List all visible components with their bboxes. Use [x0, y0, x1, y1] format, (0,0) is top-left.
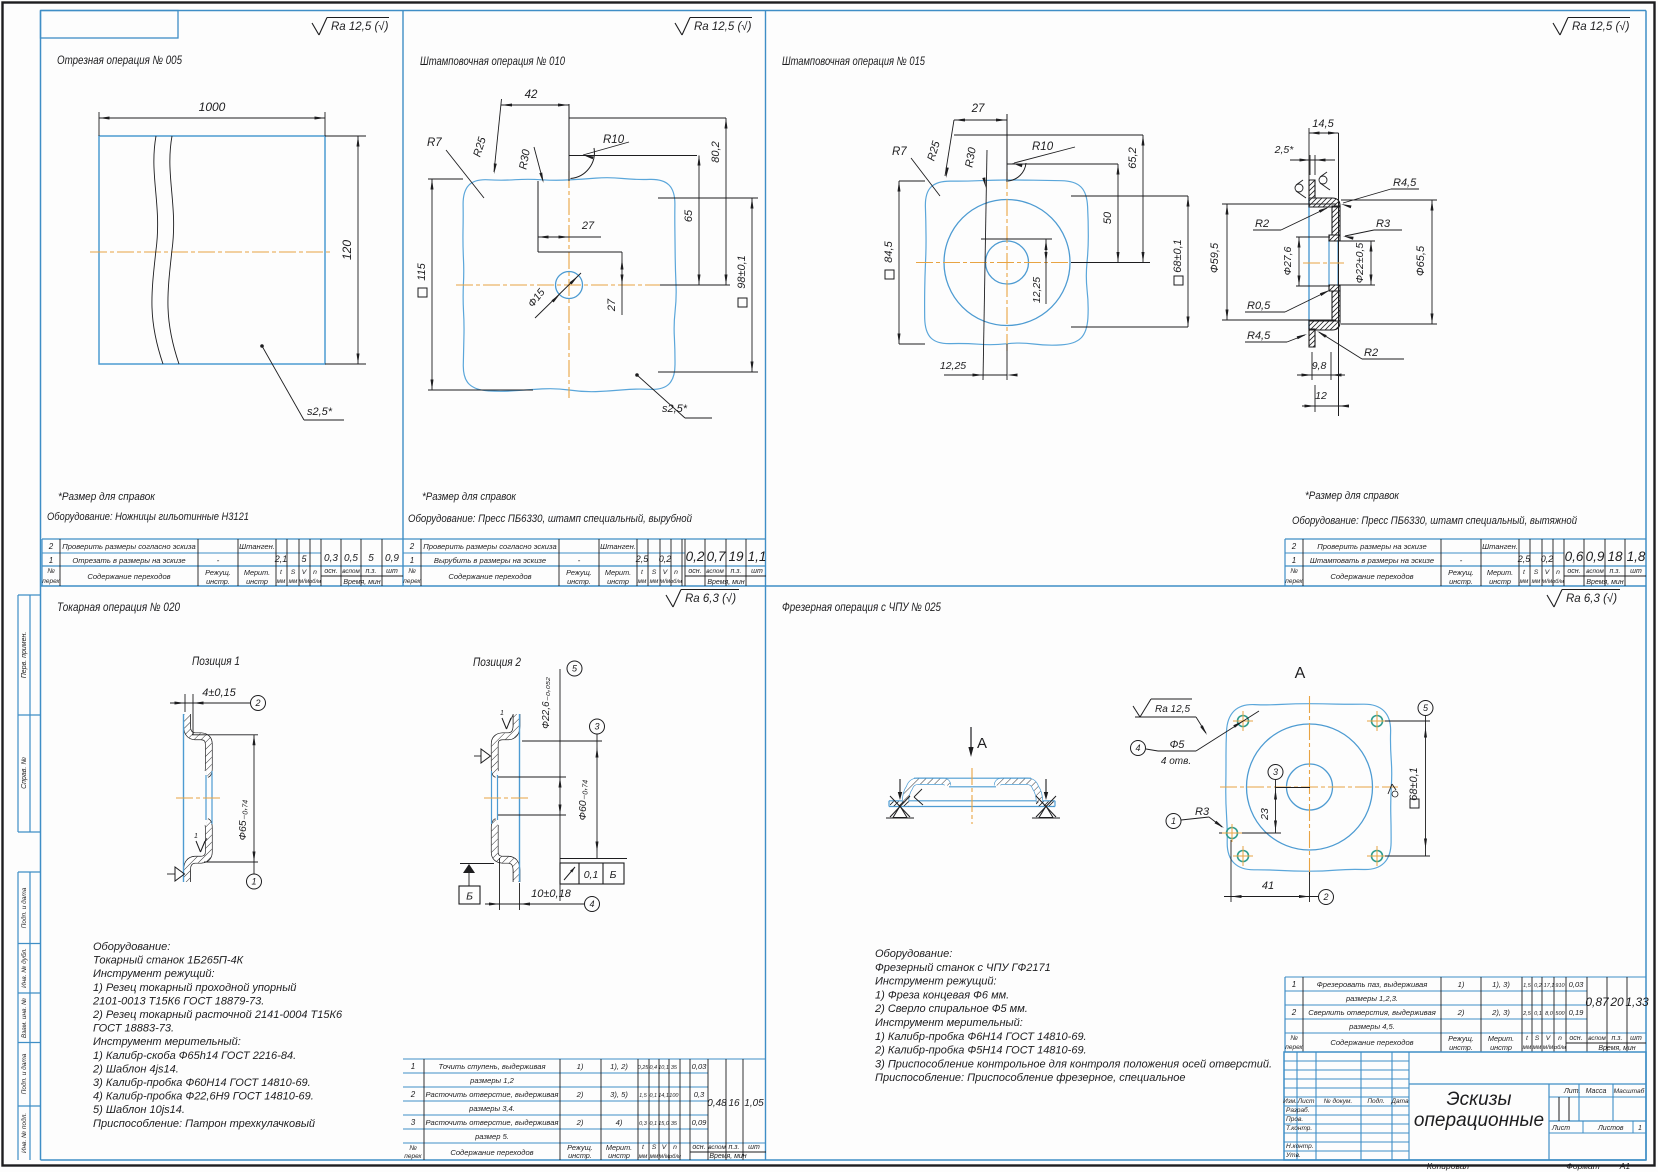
svg-text:перех: перех — [404, 1153, 422, 1160]
svg-text:68±0,1: 68±0,1 — [1172, 239, 1184, 273]
op010 dim 27 horizontal — [538, 236, 601, 238]
panel 1 operations table — [42, 538, 403, 540]
side view cup left wall band — [906, 781, 948, 802]
svg-text:Ф60₋₀,₇₄: Ф60₋₀,₇₄ — [577, 780, 589, 821]
pos2 bottom face line to tolerance frame — [560, 858, 627, 860]
svg-text:Ra 12,5 (√): Ra 12,5 (√) — [694, 20, 752, 33]
svg-text:№ докум.: № докум. — [1324, 1097, 1353, 1105]
svg-text:0,5: 0,5 — [344, 553, 358, 564]
svg-text:мм: мм — [1533, 1044, 1542, 1051]
svg-text:Лит.: Лит. — [1563, 1088, 1580, 1095]
svg-text:Масса: Масса — [1586, 1088, 1607, 1095]
op015 dim 27 — [954, 119, 1007, 121]
top view R3 leader and balloon 1 — [1166, 814, 1181, 829]
svg-text:Оборудование: Пресс ПБ6330, шт: Оборудование: Пресс ПБ6330, штамп специа… — [1292, 515, 1577, 527]
svg-text:п.з.: п.з. — [729, 1144, 740, 1151]
op010 dim 42 — [501, 104, 569, 106]
svg-text:осн.: осн. — [692, 1144, 705, 1151]
panel 5 operations table — [1285, 976, 1646, 978]
svg-text:12,25: 12,25 — [940, 360, 966, 372]
svg-text:Оборудование:: Оборудование: — [875, 948, 952, 960]
svg-text:Содержание переходов: Содержание переходов — [1330, 1038, 1413, 1047]
svg-text:R0,5: R0,5 — [1247, 300, 1271, 312]
svg-text:инстр: инстр — [608, 1151, 630, 1160]
top view dim 41 and balloon 2 — [1230, 840, 1232, 902]
op015 dim Ф22±0,5 — [1331, 240, 1375, 242]
svg-text:2: 2 — [1291, 1008, 1297, 1017]
op010 R25 leader — [494, 99, 502, 172]
svg-text:1: 1 — [1292, 980, 1296, 989]
svg-text:4): 4) — [616, 1118, 623, 1127]
svg-text:Время, мин: Время, мин — [709, 1153, 746, 1160]
svg-text:1: 1 — [1292, 556, 1296, 565]
svg-text:Ф22,6₋₀,₀₅₂: Ф22,6₋₀,₀₅₂ — [541, 677, 552, 729]
svg-text:№: № — [1290, 568, 1298, 575]
top view edge finish mark — [1388, 784, 1392, 794]
svg-text:Копировал: Копировал — [1427, 1161, 1469, 1171]
svg-text:R3: R3 — [1376, 218, 1391, 230]
panel 1 Ra mark — [312, 23, 319, 35]
svg-text:об/м: об/м — [669, 1154, 681, 1160]
svg-text:Формат: Формат — [1566, 1161, 1600, 1171]
svg-text:инстр: инстр — [1489, 577, 1511, 586]
svg-text:0,2: 0,2 — [686, 549, 705, 564]
svg-text:Токарный станок 1Б265П-4К: Токарный станок 1Б265П-4К — [93, 955, 244, 967]
op015 dim 9,8 — [1311, 352, 1313, 380]
svg-text:1: 1 — [1171, 816, 1176, 826]
svg-text:Инв. № подл.: Инв. № подл. — [20, 1113, 28, 1154]
svg-text:мм: мм — [639, 1153, 648, 1160]
svg-text:4 отв.: 4 отв. — [1161, 756, 1191, 767]
title block frame — [1284, 1052, 1646, 1160]
svg-text:65: 65 — [683, 209, 695, 222]
svg-text:1: 1 — [251, 877, 256, 887]
svg-text:0,1: 0,1 — [649, 1121, 657, 1127]
svg-text:0,25: 0,25 — [638, 1065, 650, 1071]
op010 centerline vertical — [568, 171, 570, 398]
svg-text:1: 1 — [410, 556, 414, 565]
op015 dim 50 — [1117, 164, 1119, 263]
svg-text:размеры 1,2,3.: размеры 1,2,3. — [1345, 994, 1398, 1003]
svg-text:S: S — [652, 1144, 657, 1151]
pos1 dim 4±0,15 — [184, 694, 186, 712]
svg-text:1,5: 1,5 — [639, 1093, 648, 1099]
top view dim 23 and balloon 3 — [1268, 765, 1283, 780]
svg-text:инстр.: инстр. — [567, 577, 591, 586]
pos2 balloon 3 and dim Ф60 — [590, 719, 605, 734]
svg-text:12: 12 — [1315, 390, 1327, 402]
svg-text:№: № — [1290, 1035, 1298, 1042]
svg-text:Инв. № дубл.: Инв. № дубл. — [20, 948, 28, 988]
svg-text:Мерит.: Мерит. — [1488, 1034, 1514, 1043]
top view blank wavy square — [1226, 704, 1392, 872]
svg-text:1) Резец токарный проходной уп: 1) Резец токарный проходной упорный — [93, 982, 296, 994]
op015 finish symbol left — [1295, 184, 1303, 192]
svg-text:3: 3 — [411, 1118, 416, 1127]
svg-text:98±0,1: 98±0,1 — [736, 255, 748, 289]
side view flange sheet lines — [889, 800, 1055, 802]
svg-text:Отрезать в размеры на эскизе: Отрезать в размеры на эскизе — [72, 556, 185, 565]
svg-text:1: 1 — [49, 556, 53, 565]
svg-text:4) Калибр-пробка Ф22,6Н9 ГОСТ: 4) Калибр-пробка Ф22,6Н9 ГОСТ 14810-69. — [93, 1091, 314, 1103]
op015 part/extension lines — [1006, 114, 1008, 182]
svg-text:Фрезерная операция с ЧПУ № 025: Фрезерная операция с ЧПУ № 025 — [782, 600, 941, 614]
op015 section: flange plane line — [1338, 133, 1340, 416]
svg-text:3: 3 — [594, 722, 599, 732]
svg-text:0,9: 0,9 — [1586, 549, 1605, 564]
svg-text:2: 2 — [1291, 542, 1297, 551]
op005 sheet rectangle — [99, 136, 325, 364]
svg-text:п.з.: п.з. — [1610, 568, 1621, 575]
svg-text:Расточить отверстие, выдержива: Расточить отверстие, выдерживая — [425, 1118, 558, 1127]
svg-text:вспом: вспом — [342, 568, 360, 575]
svg-text:м/м: м/м — [1543, 1044, 1554, 1051]
pos2 tolerance frame 0,1 Б — [560, 863, 624, 884]
svg-text:мм: мм — [650, 578, 659, 585]
op010 centerline horizontal — [456, 284, 682, 286]
svg-text:инстр: инстр — [246, 577, 268, 586]
svg-text:5: 5 — [368, 553, 374, 564]
svg-text:мм: мм — [1532, 578, 1541, 585]
svg-text:п.з.: п.з. — [366, 568, 377, 575]
svg-text:мм: мм — [289, 578, 298, 585]
svg-text:инстр.: инстр. — [1449, 1043, 1473, 1052]
top view R3 milled corner — [1227, 828, 1238, 839]
svg-text:Ф59,5: Ф59,5 — [1209, 242, 1221, 273]
svg-text:1,1: 1,1 — [748, 549, 767, 564]
svg-text:3) Калибр-пробка Ф60Н14 ГОСТ 1: 3) Калибр-пробка Ф60Н14 ГОСТ 14810-69. — [93, 1077, 311, 1089]
svg-text:2: 2 — [48, 542, 54, 551]
svg-text:2: 2 — [410, 1090, 416, 1099]
svg-text:шт: шт — [386, 568, 398, 575]
panel 2 Ra mark — [675, 23, 682, 35]
svg-text:2,5: 2,5 — [635, 554, 650, 564]
svg-text:об/м: об/м — [1552, 579, 1564, 585]
svg-text:Н.контр.: Н.контр. — [1286, 1143, 1314, 1150]
pos2 cup section upper band — [495, 714, 517, 774]
svg-text:ГОСТ 18883-73.: ГОСТ 18883-73. — [93, 1023, 174, 1035]
svg-text:Ra 12,5 (√): Ra 12,5 (√) — [1572, 20, 1630, 33]
svg-text:Фрезерный станок с ЧПУ ГФ2171: Фрезерный станок с ЧПУ ГФ2171 — [875, 962, 1051, 974]
svg-text:S: S — [291, 569, 296, 576]
svg-text:Инструмент режущий:: Инструмент режущий: — [93, 968, 215, 980]
pos1 finish symbol wall — [196, 841, 201, 852]
svg-text:Точить ступень, выдерживая: Точить ступень, выдерживая — [438, 1062, 545, 1071]
svg-text:Мерит.: Мерит. — [1487, 568, 1513, 577]
op015 centerline vertical — [1006, 172, 1008, 352]
svg-text:мм: мм — [650, 1153, 659, 1160]
pos2 finish symbol left wall — [481, 749, 491, 763]
op010 dim 27 vertical — [621, 252, 623, 315]
svg-text:Подп. и дата: Подп. и дата — [20, 887, 28, 928]
svg-text:0,2: 0,2 — [1534, 983, 1542, 989]
svg-text:17,1: 17,1 — [1544, 983, 1555, 989]
op015 blank wavy square — [925, 180, 1089, 345]
svg-text:2): 2) — [1457, 1008, 1465, 1017]
svg-text:0,9: 0,9 — [385, 553, 399, 564]
svg-text:2,5*: 2,5* — [1274, 144, 1295, 156]
svg-text:Оборудование: Пресс ПБ6330, шт: Оборудование: Пресс ПБ6330, штамп специа… — [408, 513, 692, 525]
svg-text:23: 23 — [1259, 808, 1271, 821]
svg-text:Подп.: Подп. — [1367, 1097, 1384, 1105]
svg-text:вспом: вспом — [708, 1144, 726, 1151]
svg-text:2,1: 2,1 — [274, 554, 288, 564]
svg-text:размеры 1,2: размеры 1,2 — [469, 1076, 514, 1085]
svg-text:0,2: 0,2 — [659, 554, 672, 564]
pos2 cup section lower band — [495, 822, 517, 882]
svg-text:0,3: 0,3 — [324, 553, 338, 564]
pos1 balloon 1 — [253, 862, 255, 874]
svg-text:12,25: 12,25 — [1031, 277, 1043, 303]
svg-text:1), 3): 1), 3) — [1492, 980, 1510, 989]
svg-text:шт: шт — [748, 1144, 760, 1151]
svg-text:Б: Б — [610, 869, 617, 881]
svg-text:27: 27 — [971, 103, 985, 115]
op015 dim 14,5 — [1308, 128, 1310, 198]
svg-text:R10: R10 — [1032, 141, 1054, 153]
svg-text:Отрезная операция № 005: Отрезная операция № 005 — [57, 53, 182, 67]
op010 blank wavy square — [463, 178, 676, 392]
svg-text:9,8: 9,8 — [1312, 360, 1327, 372]
svg-text:2: 2 — [1322, 892, 1328, 902]
svg-text:68±0,1: 68±0,1 — [1408, 767, 1420, 801]
svg-text:2,5: 2,5 — [1517, 554, 1532, 564]
svg-text:перех: перех — [403, 578, 421, 585]
svg-text:размер 5.: размер 5. — [474, 1132, 509, 1141]
svg-text:Масштаб: Масштаб — [1614, 1087, 1645, 1095]
svg-text:0,6: 0,6 — [1565, 549, 1584, 564]
svg-text:Позиция 1: Позиция 1 — [192, 654, 240, 668]
svg-text:Подп. и дата: Подп. и дата — [20, 1053, 28, 1094]
svg-text:0,87: 0,87 — [1585, 995, 1610, 1009]
top view hole circle — [1287, 764, 1333, 810]
svg-text:500: 500 — [1555, 1011, 1565, 1017]
side view centerline — [971, 768, 973, 824]
top-left stamp rectangle — [41, 11, 179, 39]
op015 hole circle — [986, 241, 1029, 284]
svg-text:Лист: Лист — [1551, 1125, 1570, 1132]
svg-text:А: А — [977, 735, 987, 752]
svg-text:1,8: 1,8 — [1627, 549, 1646, 564]
top view flange circle — [1247, 724, 1373, 850]
svg-text:1) Калибр-пробка Ф6Н14 ГОСТ 14: 1) Калибр-пробка Ф6Н14 ГОСТ 14810-69. — [875, 1031, 1087, 1043]
svg-text:4±0,15: 4±0,15 — [202, 687, 236, 699]
svg-text:1: 1 — [411, 1062, 415, 1071]
svg-text:R7: R7 — [892, 146, 907, 158]
svg-text:Штанген.: Штанген. — [600, 542, 636, 551]
svg-text:18: 18 — [1607, 549, 1623, 564]
svg-text:Оборудование: Ножницы гильотин: Оборудование: Ножницы гильотинные Н3121 — [47, 511, 249, 523]
svg-text:шт: шт — [751, 568, 763, 575]
pos2 datum Б — [460, 863, 494, 865]
svg-text:27: 27 — [581, 220, 595, 232]
svg-text:2): 2) — [576, 1090, 584, 1099]
svg-text:перех: перех — [1285, 578, 1303, 585]
svg-text:шт: шт — [1630, 568, 1642, 575]
svg-text:1), 2): 1), 2) — [610, 1062, 628, 1071]
svg-text:5) Шаблон 10js14.: 5) Шаблон 10js14. — [93, 1104, 185, 1116]
op015 flange circle — [944, 200, 1070, 326]
svg-text:0,19: 0,19 — [1569, 1008, 1585, 1017]
title block left grid verticals — [1296, 1052, 1298, 1160]
svg-text:инстр.: инстр. — [568, 1151, 592, 1160]
svg-text:Позиция 2: Позиция 2 — [473, 655, 521, 669]
svg-text:0,09: 0,09 — [692, 1118, 708, 1127]
svg-text:3) Приспособление контрольное: 3) Приспособление контрольное для контро… — [875, 1058, 1272, 1070]
top view hole callout Ф5 4 отв — [1131, 741, 1146, 756]
svg-text:S: S — [1534, 569, 1539, 576]
svg-text:осн.: осн. — [1569, 1035, 1582, 1042]
op015 dim 12 — [1314, 385, 1316, 412]
svg-text:мм: мм — [277, 578, 286, 585]
svg-text:1): 1) — [1458, 980, 1465, 989]
op010 dim 80,2 — [725, 118, 727, 285]
svg-text:Приспособление: Патрон трехкул: Приспособление: Патрон трехкулачковый — [93, 1118, 315, 1130]
svg-text:0,4: 0,4 — [649, 1065, 657, 1071]
svg-text:вспом: вспом — [706, 568, 724, 575]
svg-text:Штанген.: Штанген. — [239, 542, 275, 551]
svg-text:мм: мм — [638, 578, 647, 585]
svg-text:0,1: 0,1 — [1534, 1011, 1542, 1017]
svg-text:50: 50 — [1102, 211, 1114, 224]
svg-text:Ra 6,3 (√): Ra 6,3 (√) — [1566, 592, 1617, 605]
svg-text:Штанген.: Штанген. — [1482, 542, 1518, 551]
svg-text:Режущ.: Режущ. — [1448, 568, 1474, 577]
svg-text:R4,5: R4,5 — [1247, 330, 1271, 342]
pos2 finish symbol top — [502, 718, 507, 729]
svg-text:операционные: операционные — [1414, 1110, 1544, 1131]
svg-text:84,5: 84,5 — [883, 240, 895, 262]
panel divider 2-3 — [765, 11, 767, 587]
op015 R25 leader — [946, 167, 949, 178]
svg-text:Проверить размеры на эскизе: Проверить размеры на эскизе — [1317, 542, 1426, 551]
panel divider 4-5 — [765, 586, 767, 1160]
svg-text:0,2: 0,2 — [1541, 554, 1554, 564]
svg-text:Режущ.: Режущ. — [1448, 1034, 1474, 1043]
panel 4 operations table — [403, 1058, 766, 1060]
svg-text:Сверлить отверстия, выдерживая: Сверлить отверстия, выдерживая — [1308, 1008, 1436, 1017]
svg-text:Ф22±0,5: Ф22±0,5 — [1354, 243, 1366, 284]
svg-text:Ф27,6: Ф27,6 — [1282, 246, 1294, 275]
svg-text:Б: Б — [466, 891, 473, 903]
svg-text:20: 20 — [1609, 995, 1624, 1009]
pos2 balloon 4 — [585, 897, 600, 912]
svg-text:об/м: об/м — [670, 579, 682, 585]
svg-text:0,03: 0,03 — [1569, 980, 1585, 989]
svg-text:1: 1 — [1638, 1125, 1642, 1132]
svg-text:35: 35 — [671, 1065, 678, 1071]
op010 leader s2,5* — [635, 373, 639, 377]
svg-text:2) Калибр-пробка Ф5Н14 ГОСТ 14: 2) Калибр-пробка Ф5Н14 ГОСТ 14810-69. — [874, 1045, 1087, 1057]
op015 dim 2,5* — [1309, 155, 1311, 175]
svg-text:0,48: 0,48 — [707, 1098, 727, 1109]
op015 dim 12,25 inner — [1045, 239, 1047, 304]
svg-text:Мерит.: Мерит. — [605, 568, 631, 577]
svg-text:Режущ.: Режущ. — [205, 568, 231, 577]
svg-text:14,1: 14,1 — [658, 1093, 669, 1099]
svg-text:R3: R3 — [1195, 806, 1210, 818]
op015 section: left face line — [1308, 198, 1310, 329]
svg-text:инстр.: инстр. — [1449, 577, 1473, 586]
op015 centerline horizontal — [916, 262, 1096, 264]
svg-text:Перв. примен.: Перв. примен. — [21, 632, 28, 679]
svg-text:Штамповочная операция № 010: Штамповочная операция № 010 — [420, 54, 565, 68]
svg-text:41: 41 — [1262, 880, 1274, 892]
svg-text:Ф65₋₀,₇₄: Ф65₋₀,₇₄ — [237, 800, 249, 841]
svg-text:-: - — [217, 556, 220, 565]
pos1 cup section upper band — [187, 714, 209, 774]
svg-text:№: № — [408, 568, 416, 575]
svg-text:перех: перех — [42, 578, 60, 585]
svg-text:Время, мин: Время, мин — [707, 579, 744, 586]
svg-text:120: 120 — [340, 240, 354, 260]
svg-text:10±0,18: 10±0,18 — [531, 888, 572, 900]
op005 leader s2,5* — [260, 344, 264, 348]
svg-text:Время, мин: Время, мин — [1586, 579, 1623, 586]
panel 4 Ra mark — [666, 595, 673, 607]
svg-text:Изм.: Изм. — [1283, 1098, 1297, 1105]
svg-text:1,5: 1,5 — [1523, 983, 1532, 989]
svg-text:0,3: 0,3 — [694, 1090, 705, 1099]
side view left support — [899, 779, 901, 795]
svg-text:n: n — [1558, 1035, 1562, 1042]
op010 dim 98±0,1 — [658, 197, 758, 199]
svg-text:Штамповочная операция № 015: Штамповочная операция № 015 — [782, 54, 925, 68]
svg-text:1,33: 1,33 — [1625, 995, 1649, 1009]
op005 dim 1000 — [98, 112, 100, 136]
svg-text:n: n — [313, 569, 317, 576]
top view 4 holes — [1238, 716, 1249, 727]
svg-text:2), 3): 2), 3) — [1491, 1008, 1510, 1017]
svg-text:S: S — [652, 569, 657, 576]
svg-text:Лист: Лист — [1297, 1098, 1315, 1105]
svg-text:3), 5): 3), 5) — [610, 1090, 628, 1099]
svg-text:Разраб.: Разраб. — [1286, 1106, 1310, 1114]
svg-text:S: S — [1535, 1035, 1540, 1042]
title block left grid horizontals — [1284, 1060, 1409, 1062]
pos1 finish symbol bottom — [175, 867, 185, 881]
pos1 bore edges — [205, 775, 207, 820]
op015 section: bore edge lines — [1328, 240, 1330, 286]
svg-text:1) Калибр-скоба Ф65h14 ГОСТ 22: 1) Калибр-скоба Ф65h14 ГОСТ 2216-84. — [93, 1050, 296, 1062]
svg-text:R2: R2 — [1364, 347, 1378, 359]
pos1 cup section lower band — [187, 822, 209, 882]
op015 dim 12,25 bottom — [944, 374, 1007, 376]
svg-text:А: А — [1295, 665, 1306, 682]
svg-text:вспом: вспом — [1586, 568, 1604, 575]
svg-text:размеры 3,4.: размеры 3,4. — [468, 1104, 515, 1113]
op015 dim 84,5 — [899, 180, 925, 182]
top view centerline vertical — [1309, 696, 1311, 878]
svg-text:Дата: Дата — [1390, 1098, 1409, 1105]
op015 dim 68±0,1 — [1187, 196, 1189, 327]
svg-text:Вырубить в размеры на эскизе: Вырубить в размеры на эскизе — [434, 556, 546, 565]
svg-text:19: 19 — [728, 549, 744, 564]
svg-text:Справ. №: Справ. № — [21, 757, 28, 789]
svg-text:*Размер для справок: *Размер для справок — [422, 491, 517, 503]
title block doc row — [1409, 1083, 1646, 1085]
svg-text:Оборудование:: Оборудование: — [93, 941, 170, 953]
pos1 balloon 2 — [251, 696, 266, 711]
side view cup right wall band — [998, 781, 1040, 802]
op005 centerline — [90, 251, 333, 253]
svg-text:4: 4 — [1135, 743, 1140, 753]
svg-text:Время, мин: Время, мин — [1598, 1045, 1635, 1052]
svg-text:2): 2) — [576, 1118, 584, 1127]
svg-text:2: 2 — [254, 698, 260, 708]
svg-text:п.з.: п.з. — [1612, 1035, 1623, 1042]
svg-text:осн.: осн. — [324, 568, 337, 575]
